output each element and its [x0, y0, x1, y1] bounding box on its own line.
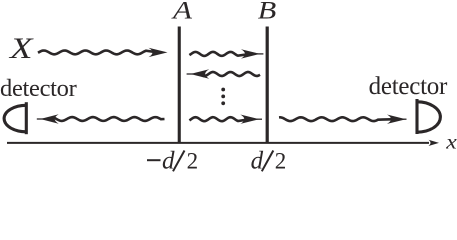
right detector symbol — [417, 99, 440, 134]
wire: incident wave arrow toward mirror A — [38, 51, 158, 55]
svg-text:detector: detector — [0, 75, 77, 102]
wire: intracavity leftward wave — [200, 72, 261, 76]
wire: transmitted wave to right detector — [279, 117, 397, 121]
svg-text:2: 2 — [275, 149, 287, 174]
wire: intracavity rightward wave (top) — [189, 52, 250, 56]
wire: intracavity rightward wave (bottom) — [189, 117, 250, 121]
x axis arrowhead — [429, 140, 440, 146]
svg-text:2: 2 — [187, 149, 199, 174]
svg-text:x: x — [445, 130, 457, 154]
svg-text:A: A — [171, 0, 193, 24]
mirror A (barrier at -d/2) — [178, 27, 181, 144]
mirror B (barrier at d/2) — [266, 27, 269, 144]
left detector symbol — [4, 102, 26, 134]
svg-text:B: B — [258, 0, 277, 24]
wire: reflected wave to left detector — [53, 117, 165, 121]
svg-text:X: X — [9, 32, 35, 65]
ellipsis dots (multiple reflections) — [221, 88, 225, 106]
tick label -d/2 — [147, 148, 198, 175]
tick label d/2 — [251, 148, 287, 175]
svg-text:detector: detector — [369, 73, 448, 100]
x axis line — [7, 142, 429, 144]
